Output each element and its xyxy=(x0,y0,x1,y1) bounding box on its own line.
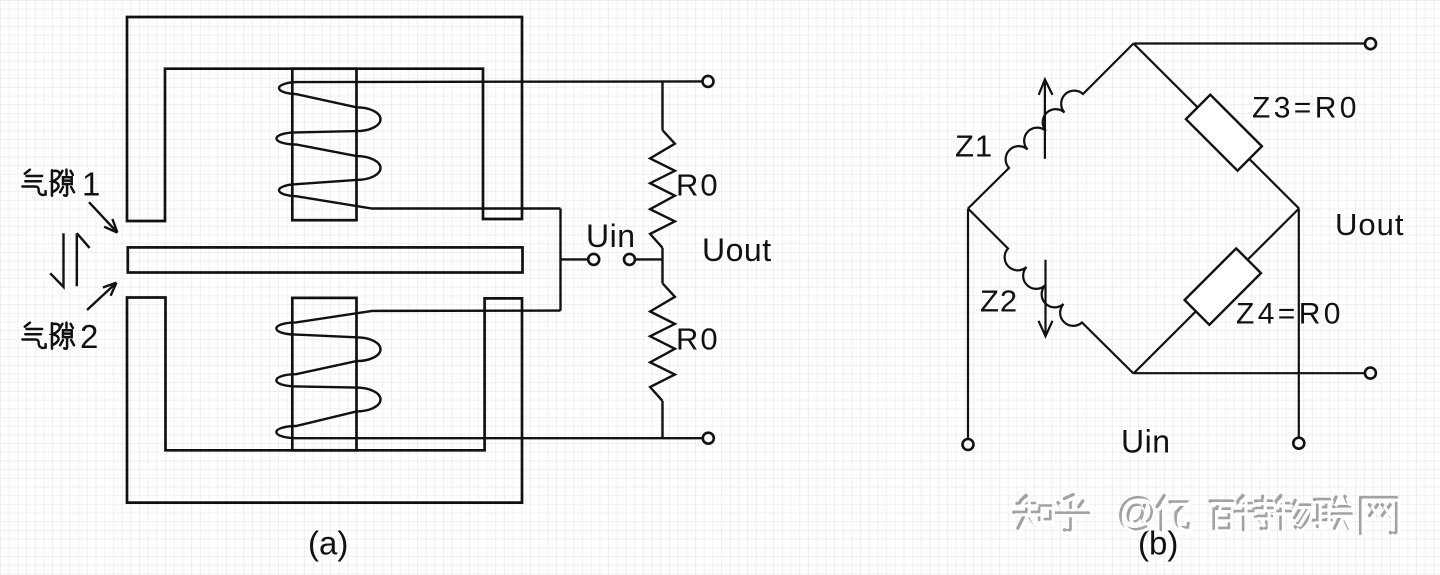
svg-text:Z2: Z2 xyxy=(980,284,1018,319)
terminal: bridge bottom right xyxy=(1293,438,1304,449)
wire: top lead into resistor chain xyxy=(661,81,663,130)
terminal: bridge mid right xyxy=(1365,368,1376,379)
coil W2 (lower winding) with lead to bottom terminal xyxy=(276,311,703,439)
wire: between resistors xyxy=(661,248,663,283)
terminal: bridge top right xyxy=(1365,38,1376,49)
svg-text:1: 1 xyxy=(82,166,100,203)
terminal: Uin left xyxy=(588,254,599,265)
branch Z3: top-right bridge arm wire xyxy=(1134,44,1300,209)
wire: left node down to Uin terminal xyxy=(967,209,969,440)
branch Z4: bottom-right bridge arm wire xyxy=(1134,209,1300,374)
armature motion symbol (double arrow) xyxy=(50,233,89,287)
core: lower E-core outline xyxy=(127,298,522,503)
terminal: bridge bottom left xyxy=(963,439,974,450)
arrow to air gap 1 xyxy=(89,202,117,232)
svg-text:Uin: Uin xyxy=(1121,424,1171,460)
inductor Z1 (top-left arm) xyxy=(968,44,1134,209)
resistor R0 (top) xyxy=(650,130,675,248)
label 气隙2 (air gap 2) xyxy=(22,318,98,355)
inductor Z2 (bottom-left arm) xyxy=(968,209,1134,374)
resistor R0 (bottom) xyxy=(650,283,675,401)
armature (iron bar) xyxy=(128,247,523,272)
svg-text:Uout: Uout xyxy=(1335,207,1404,242)
watermark 知乎 @亿佰特物联网 xyxy=(1014,490,1399,537)
svg-text:Z4=R0: Z4=R0 xyxy=(1236,298,1344,331)
svg-text:Uout: Uout xyxy=(702,232,772,268)
svg-text:Uin: Uin xyxy=(586,218,636,254)
svg-text:R0: R0 xyxy=(676,168,720,203)
svg-text:Z3=R0: Z3=R0 xyxy=(1252,92,1360,125)
svg-text:Z1: Z1 xyxy=(955,129,993,164)
wire: top node to top-right terminal xyxy=(1134,42,1365,44)
arrow through Z1 (up) xyxy=(1039,80,1053,159)
svg-text:2: 2 xyxy=(80,318,98,355)
wire: right node down to Uin terminal xyxy=(1298,209,1300,438)
terminal: output bottom xyxy=(703,433,714,444)
arrow to air gap 2 xyxy=(87,283,117,310)
wire: Uin right terminal to resistor midpoint xyxy=(635,258,663,260)
label 气隙1 (air gap 1) xyxy=(22,166,100,203)
resistor box Z4 xyxy=(1185,248,1261,324)
wire: bottom node to right terminal xyxy=(1134,372,1365,374)
svg-text:@: @ xyxy=(1119,493,1160,537)
core: upper E-core outline xyxy=(127,17,522,221)
wire: bottom resistor lead xyxy=(661,401,663,438)
core: lower middle leg (coil bobbin) xyxy=(292,298,356,450)
terminal: Uin right xyxy=(624,254,635,265)
core: upper middle leg (coil bobbin) xyxy=(292,69,356,221)
svg-text:(a): (a) xyxy=(308,525,348,562)
coil W1 (upper winding) with lead to output node xyxy=(277,81,704,208)
arrow through Z2 (down) xyxy=(1039,260,1053,337)
terminal: output top xyxy=(703,76,714,87)
resistor box Z3 xyxy=(1186,95,1262,171)
wire: junction of W1/W2 with Uin tap xyxy=(561,209,589,311)
svg-text:R0: R0 xyxy=(676,322,720,357)
